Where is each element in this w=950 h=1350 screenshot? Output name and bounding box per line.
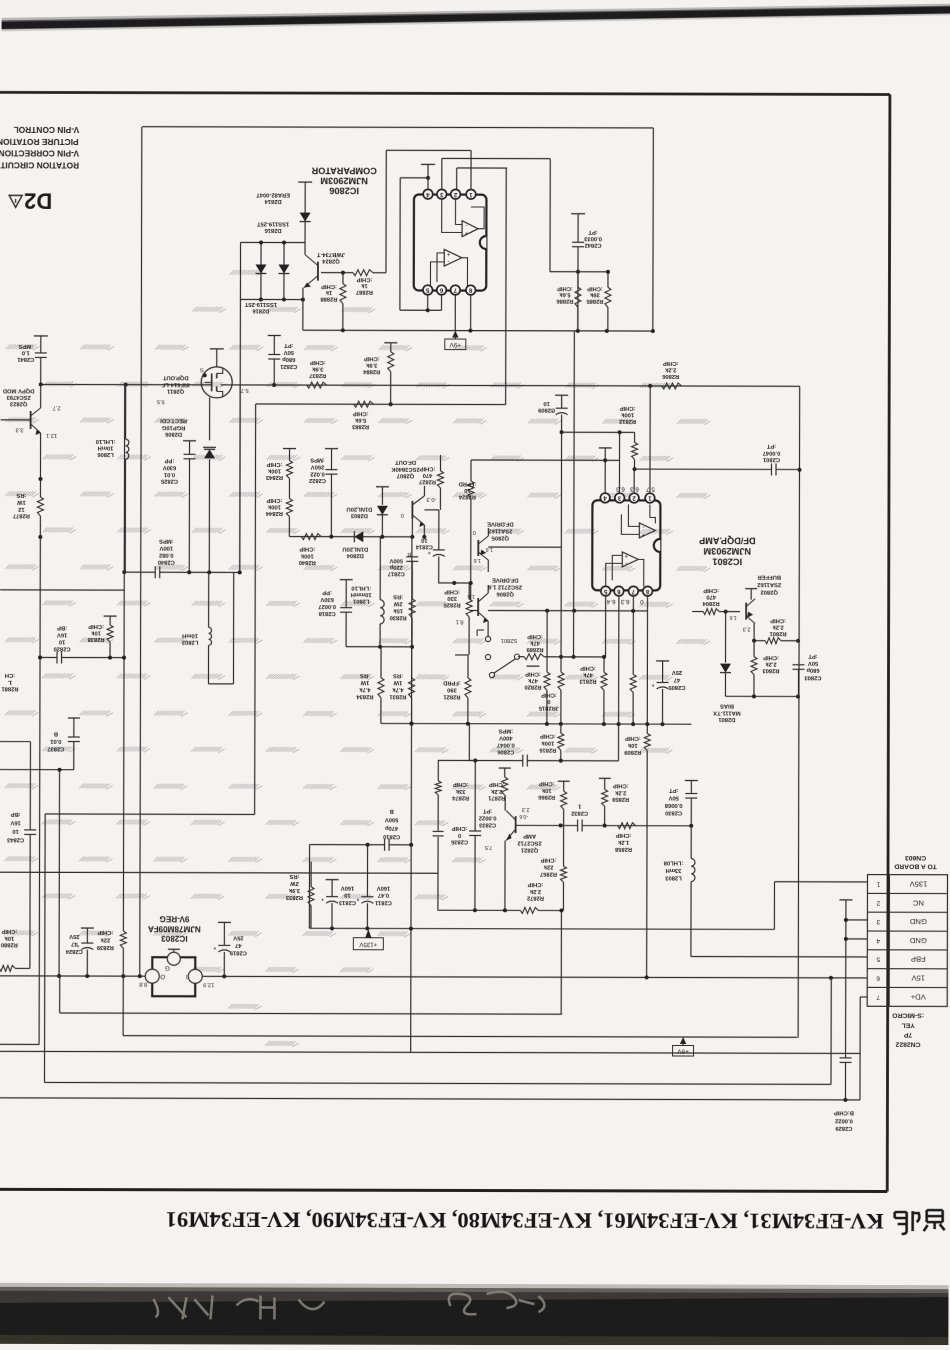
svg-text:R2888: R2888 bbox=[320, 296, 338, 302]
svg-text:0: 0 bbox=[473, 529, 476, 535]
svg-text:TO A BOARD: TO A BOARD bbox=[894, 863, 937, 870]
svg-text:R2881: R2881 bbox=[1, 685, 19, 691]
svg-text:8.8: 8.8 bbox=[139, 981, 147, 987]
svg-text:DF.DRIVE: DF.DRIVE bbox=[492, 577, 519, 583]
resistor R2834 4.7k 1W bbox=[380, 647, 382, 678]
IC2806 pins bottom row 5 6 7 8 bbox=[423, 285, 433, 295]
diode D2814 with label ERA82-004T bbox=[298, 181, 312, 183]
svg-text::CHIP: :CHIP bbox=[419, 465, 435, 471]
wire y=815 box top bbox=[45, 813, 254, 816]
resistor R2837 3.9k inline bbox=[307, 382, 327, 388]
wire y=432 bbox=[562, 431, 635, 433]
svg-text:C2822: C2822 bbox=[309, 477, 326, 483]
svg-text:5.6k: 5.6k bbox=[354, 417, 366, 423]
capacitor C2825 0.01 630V bbox=[183, 440, 196, 442]
svg-text:1.6: 1.6 bbox=[467, 593, 474, 599]
svg-text:*: * bbox=[321, 894, 324, 901]
resistor R2839 22k bbox=[122, 909, 124, 931]
svg-text:0.0022: 0.0022 bbox=[835, 1117, 853, 1123]
svg-text:10: 10 bbox=[421, 537, 427, 543]
svg-text:R2827: R2827 bbox=[419, 479, 436, 485]
capacitor C2837 0.01 bbox=[68, 717, 80, 719]
svg-text:10: 10 bbox=[464, 487, 470, 493]
resistor R2825 330 bbox=[468, 583, 470, 599]
svg-text:0: 0 bbox=[458, 832, 461, 838]
transistor Q2802 2SA1162 buffer bbox=[745, 603, 747, 620]
wire y=1045.5 bbox=[0, 1043, 39, 1045]
svg-text:R2871: R2871 bbox=[487, 795, 505, 801]
box corner x=30.6 rail with C2843 bbox=[0, 741, 30, 743]
wire Q2805 to rail y=547 bbox=[488, 546, 561, 548]
coil L2806 10mH bbox=[125, 385, 127, 439]
svg-text::CHIP: :CHIP bbox=[557, 285, 573, 291]
svg-text:2.2k: 2.2k bbox=[772, 624, 784, 630]
capacitor C2835 0 bbox=[433, 830, 444, 832]
svg-text:Q2811: Q2811 bbox=[166, 388, 184, 394]
svg-text:15V: 15V bbox=[911, 974, 925, 983]
svg-text:R2816: R2816 bbox=[538, 747, 556, 753]
svg-text:0.0022: 0.0022 bbox=[479, 815, 497, 821]
svg-text:I: I bbox=[186, 973, 188, 980]
coil L2803 33mH bbox=[690, 826, 692, 859]
svg-text:2SA1162: 2SA1162 bbox=[757, 581, 781, 587]
connector wires bbox=[774, 881, 867, 883]
svg-text:R2801: R2801 bbox=[769, 630, 787, 636]
svg-text::CHIP: :CHIP bbox=[1, 928, 17, 934]
svg-text:*: * bbox=[356, 894, 359, 901]
op-amp U1a inside IC2806 bbox=[462, 221, 478, 237]
svg-text:0: 0 bbox=[401, 512, 404, 518]
diode D2816a bbox=[260, 242, 262, 299]
wire pin2 riser from y=168 bbox=[456, 168, 458, 189]
svg-text::PT: :PT bbox=[808, 653, 818, 659]
svg-text:3: 3 bbox=[617, 494, 621, 501]
svg-text::CH: :CH bbox=[5, 672, 15, 678]
wire rail x=832 pin6 bbox=[830, 978, 832, 1084]
svg-text:C2824: C2824 bbox=[65, 948, 83, 954]
svg-text:6: 6 bbox=[439, 287, 443, 294]
svg-text::CHIP: :CHIP bbox=[356, 276, 372, 282]
svg-text:D2804: D2804 bbox=[346, 552, 364, 558]
resistor R2816 100k bbox=[560, 724, 562, 733]
svg-text:1: 1 bbox=[648, 495, 652, 502]
svg-text:100k: 100k bbox=[267, 504, 281, 510]
svg-text:7: 7 bbox=[453, 287, 457, 294]
svg-text::CHIP: :CHIP bbox=[525, 671, 541, 677]
svg-text:RGP10G: RGP10G bbox=[161, 424, 185, 430]
svg-text:47: 47 bbox=[674, 676, 680, 682]
wire pin3 riser x=619 bbox=[618, 432, 620, 493]
svg-text:C2837: C2837 bbox=[47, 745, 64, 751]
capacitor C2824 47 25V electro bbox=[81, 927, 94, 929]
svg-text:C2835: C2835 bbox=[450, 839, 468, 845]
svg-text:DQP.OUT: DQP.OUT bbox=[162, 374, 188, 380]
switch S2801 bbox=[477, 629, 484, 631]
svg-text:V-PIN CONTROL: V-PIN CONTROL bbox=[14, 125, 80, 135]
svg-text:+135V: +135V bbox=[358, 941, 377, 948]
svg-text:2W: 2W bbox=[290, 880, 299, 886]
svg-text:6.3: 6.3 bbox=[616, 485, 625, 492]
svg-text:DF.OUT: DF.OUT bbox=[395, 459, 416, 465]
resistor R2801 2.2k inline bbox=[765, 638, 781, 644]
svg-text::CHIP: :CHIP bbox=[703, 587, 719, 593]
svg-text:L2806: L2806 bbox=[97, 451, 114, 457]
svg-text:0.082: 0.082 bbox=[159, 552, 174, 558]
capacitor C2805 47 25V bbox=[656, 660, 669, 662]
svg-text:D2814: D2814 bbox=[264, 198, 282, 204]
wire y=591 bbox=[0, 589, 124, 591]
svg-text::CHIP: :CHIP bbox=[266, 497, 282, 503]
svg-text:CN2822: CN2822 bbox=[895, 1041, 920, 1048]
wire rail x=251 inner bbox=[232, 572, 234, 683]
capacitor C2801 0.0047 series bbox=[770, 463, 772, 475]
svg-text:0: 0 bbox=[639, 598, 643, 605]
svg-text:0.0047: 0.0047 bbox=[763, 450, 781, 456]
svg-text::CHIP: :CHIP bbox=[266, 461, 282, 467]
svg-text:5.5: 5.5 bbox=[157, 398, 165, 404]
svg-text:CN603: CN603 bbox=[905, 854, 926, 861]
wire pin2 riser bbox=[633, 469, 635, 493]
diode D2816b bbox=[283, 243, 285, 300]
svg-text:C2841: C2841 bbox=[16, 356, 34, 362]
svg-text:R2880: R2880 bbox=[1, 941, 18, 947]
svg-text:100k: 100k bbox=[541, 740, 555, 746]
diode D2803 D1NL20U vertical bbox=[376, 486, 389, 488]
svg-text:R2824: R2824 bbox=[458, 494, 476, 500]
svg-text:2SC2712 1.6: 2SC2712 1.6 bbox=[488, 584, 523, 590]
resistor R2843 100k bbox=[283, 448, 296, 450]
svg-text:7P: 7P bbox=[903, 1031, 912, 1038]
wire Q2824 base to R2887 bbox=[321, 272, 353, 274]
svg-text:D2806: D2806 bbox=[164, 431, 182, 437]
flag +9V on rail bbox=[452, 331, 458, 338]
svg-text:R2830: R2830 bbox=[390, 614, 407, 620]
svg-text::CHIP: :CHIP bbox=[527, 633, 543, 639]
svg-text::CHIP: :CHIP bbox=[540, 733, 556, 739]
svg-text:B: B bbox=[390, 808, 394, 814]
resistor R2809 10k bbox=[646, 724, 648, 733]
wire y=695.7 bbox=[725, 695, 798, 697]
resistor R2884 3.9k bbox=[384, 342, 397, 344]
svg-text:*: * bbox=[428, 547, 431, 554]
svg-text:Q2802: Q2802 bbox=[760, 589, 777, 595]
svg-text:-: - bbox=[447, 258, 449, 264]
svg-text::LHL10: :LHL10 bbox=[96, 438, 116, 444]
svg-text:C2801: C2801 bbox=[762, 456, 780, 462]
svg-text:1k: 1k bbox=[325, 289, 332, 295]
capacitor C2811 0.47 160V electro bbox=[366, 845, 368, 897]
resistor R2840 100k inline bbox=[301, 534, 321, 540]
svg-text:7: 7 bbox=[876, 993, 880, 1000]
resistor R2821 390 FPRD bbox=[467, 655, 469, 678]
svg-text:1W: 1W bbox=[17, 499, 26, 505]
svg-text:5.7: 5.7 bbox=[646, 485, 655, 492]
svg-text:IC2801: IC2801 bbox=[712, 556, 742, 566]
resistor R2871 2.2k bbox=[499, 767, 511, 769]
svg-text:0.0068: 0.0068 bbox=[664, 802, 683, 808]
wire rail x=846.5 gnd chain bbox=[839, 899, 852, 901]
wire rail x=59.8 bbox=[58, 770, 61, 976]
wire box1 top bbox=[142, 127, 653, 128]
capacitor C2813 10 160V electro bbox=[326, 879, 339, 881]
svg-text:0.022: 0.022 bbox=[310, 470, 325, 476]
svg-text:R2831: R2831 bbox=[389, 693, 407, 699]
svg-text:0.0047: 0.0047 bbox=[497, 742, 515, 748]
wire y=468.7 to C2801 bbox=[634, 468, 771, 470]
capacitor C2842 0.0033 bbox=[571, 213, 585, 215]
svg-text:2.7: 2.7 bbox=[53, 404, 61, 410]
svg-text:-: - bbox=[466, 222, 468, 228]
wire rail x=562 down bbox=[560, 911, 562, 1014]
wire rail x=561 from C2809 down bbox=[560, 432, 563, 657]
svg-text:R2843: R2843 bbox=[265, 474, 283, 480]
svg-text:2SA1162: 2SA1162 bbox=[488, 528, 512, 534]
resistor R2888 1k bbox=[342, 273, 344, 284]
wire IC2801 pin1 rail bbox=[649, 386, 651, 493]
svg-text:NC: NC bbox=[912, 898, 924, 907]
svg-text:C2806: C2806 bbox=[496, 749, 514, 755]
svg-text:12.9: 12.9 bbox=[203, 981, 214, 987]
svg-text:3.9k: 3.9k bbox=[288, 887, 300, 893]
transistor Q2811 IRF614-LF MOSFET bbox=[210, 348, 224, 350]
svg-text:R2825: R2825 bbox=[443, 602, 461, 608]
svg-text:1.6: 1.6 bbox=[729, 614, 736, 620]
svg-text:400V: 400V bbox=[499, 735, 513, 741]
capacitor C2832 1 series bbox=[582, 825, 691, 827]
svg-text:D2: D2 bbox=[24, 188, 52, 213]
wire y=460 bbox=[471, 459, 619, 461]
svg-text::CHIP: :CHIP bbox=[616, 832, 632, 838]
svg-text:10: 10 bbox=[344, 892, 350, 898]
svg-text:R2885: R2885 bbox=[586, 298, 604, 304]
svg-text:-0.6: -0.6 bbox=[519, 813, 528, 819]
svg-text:C2813: C2813 bbox=[338, 899, 356, 905]
svg-text:R2833: R2833 bbox=[285, 894, 303, 900]
svg-text:R2859: R2859 bbox=[611, 796, 629, 802]
svg-text::CHIP: :CHIP bbox=[587, 285, 603, 291]
svg-text:100k: 100k bbox=[300, 552, 314, 558]
title leading CJK-like glyphs bbox=[895, 1210, 945, 1234]
svg-text:6.4: 6.4 bbox=[606, 598, 615, 605]
svg-text:Q2806: Q2806 bbox=[496, 591, 514, 597]
svg-text::CHIP: :CHIP bbox=[88, 623, 104, 629]
svg-text:5.6k: 5.6k bbox=[559, 291, 571, 297]
svg-text:25V: 25V bbox=[233, 934, 243, 940]
svg-text:C2805: C2805 bbox=[668, 684, 686, 690]
op-amp U2a inside IC2801 bbox=[639, 523, 655, 538]
svg-text:10mH: 10mH bbox=[98, 444, 114, 450]
diode D2806 RGP10G bbox=[203, 446, 216, 448]
svg-text:R2813: R2813 bbox=[579, 678, 597, 684]
resistor R2886 5.6k bbox=[577, 272, 579, 287]
resistor R2804 470 inline bbox=[703, 609, 719, 615]
wire pin4 feed bbox=[400, 177, 428, 179]
svg-text:*: * bbox=[651, 680, 654, 687]
svg-text:4: 4 bbox=[426, 191, 430, 198]
wire pin5 pin6 risers to y=310.4 bbox=[427, 295, 429, 311]
transistor Q2807 2SC3840K bbox=[411, 501, 413, 519]
svg-text:L2802: L2802 bbox=[182, 639, 198, 645]
svg-text:D1NL20U: D1NL20U bbox=[347, 505, 373, 511]
svg-text:L2801: L2801 bbox=[352, 597, 369, 603]
svg-text::FPRD: :FPRD bbox=[443, 679, 461, 685]
svg-text:50V: 50V bbox=[283, 349, 293, 355]
svg-text:C2833: C2833 bbox=[478, 822, 496, 828]
svg-text:Q2807: Q2807 bbox=[397, 472, 414, 478]
IC2806 pin4 open terminal bar bbox=[421, 163, 435, 165]
terminal bar above y=460 bbox=[599, 447, 612, 449]
resistor R2889 47k inline bbox=[524, 654, 544, 660]
svg-text:+: + bbox=[446, 250, 450, 256]
svg-text::S-MICRO: :S-MICRO bbox=[892, 1012, 924, 1019]
svg-text:IC2803: IC2803 bbox=[161, 934, 188, 943]
wire pin7 pin8 risers bbox=[454, 295, 456, 331]
bottom scanner bar bbox=[0, 1287, 948, 1346]
svg-text:6.3: 6.3 bbox=[630, 485, 639, 492]
svg-text:BUFFER: BUFFER bbox=[757, 574, 781, 580]
svg-text:3.9k: 3.9k bbox=[311, 366, 323, 372]
wire y=1052.5 long bbox=[0, 1051, 860, 1053]
svg-text:8.1: 8.1 bbox=[456, 618, 464, 624]
svg-text:R2821: R2821 bbox=[443, 693, 461, 699]
svg-text:L2803: L2803 bbox=[664, 875, 681, 881]
svg-text:8: 8 bbox=[468, 287, 472, 294]
svg-text:C2842: C2842 bbox=[584, 242, 601, 248]
svg-text:-: - bbox=[642, 523, 644, 529]
svg-text:*: * bbox=[213, 943, 216, 950]
svg-text:9V-REG: 9V-REG bbox=[159, 914, 189, 923]
svg-text:B: B bbox=[54, 730, 58, 736]
wire y=770.7 bbox=[0, 769, 74, 771]
wire D2816 bottom bbox=[240, 298, 302, 300]
svg-text:4: 4 bbox=[603, 494, 607, 501]
gray hatch screening marks bbox=[230, 270, 264, 276]
wire box1 right edge bbox=[652, 128, 654, 331]
svg-text:0: 0 bbox=[547, 698, 550, 704]
svg-text:470p: 470p bbox=[385, 825, 399, 831]
wire pin3 riser bbox=[441, 158, 443, 189]
svg-text:S2801: S2801 bbox=[501, 637, 518, 643]
svg-text:2SC3840K: 2SC3840K bbox=[390, 466, 419, 472]
wire pin8 riser down bbox=[646, 596, 648, 724]
svg-text:100V: 100V bbox=[159, 545, 173, 551]
op-amp U1b inside IC2806 bbox=[444, 249, 462, 266]
svg-text:R2806: R2806 bbox=[661, 373, 679, 379]
svg-text:ERA82-004T: ERA82-004T bbox=[256, 192, 290, 198]
svg-text::CHIP: :CHIP bbox=[453, 781, 469, 787]
svg-text:C2843: C2843 bbox=[6, 837, 24, 843]
svg-text:R2809: R2809 bbox=[623, 749, 641, 755]
resistor R2827 470 bbox=[439, 455, 441, 471]
wire y=168 bbox=[457, 167, 507, 169]
resistor R2844 100k bbox=[288, 479, 290, 499]
capacitor C2819 47 25V electro bbox=[218, 921, 231, 923]
svg-text:22k: 22k bbox=[543, 864, 553, 870]
svg-text:50V: 50V bbox=[808, 660, 818, 666]
resistor R2887 1k bbox=[353, 270, 373, 276]
svg-text::CHIP: :CHIP bbox=[613, 782, 629, 788]
flag +135V bbox=[365, 929, 371, 937]
svg-text:160V: 160V bbox=[377, 885, 391, 891]
wire MOSFET drain down bbox=[209, 397, 211, 440]
svg-text:R2887: R2887 bbox=[356, 289, 373, 295]
svg-text:2.3: 2.3 bbox=[522, 806, 530, 812]
svg-text:6: 6 bbox=[876, 975, 880, 982]
capacitor C2843 10 16V bbox=[24, 829, 36, 831]
svg-text:C2811: C2811 bbox=[374, 899, 392, 905]
svg-text:10: 10 bbox=[543, 400, 549, 406]
wire y=825.3 bbox=[516, 824, 578, 826]
svg-text:5: 5 bbox=[876, 956, 880, 963]
svg-text:2.2k: 2.2k bbox=[765, 661, 777, 667]
resistor R2859 2.2k bbox=[599, 777, 611, 779]
svg-text:C2819: C2819 bbox=[229, 950, 247, 956]
svg-text:R2837: R2837 bbox=[309, 372, 326, 378]
svg-text:5: 5 bbox=[603, 588, 607, 595]
svg-text:39k: 39k bbox=[589, 291, 599, 297]
svg-text:-: - bbox=[625, 560, 627, 566]
svg-text:2.3: 2.3 bbox=[743, 626, 751, 632]
svg-text:47k: 47k bbox=[529, 640, 539, 646]
IC2801 pins top row 4 3 2 1 bbox=[600, 493, 610, 503]
svg-text:AMP: AMP bbox=[523, 833, 536, 839]
svg-text:1: 1 bbox=[876, 880, 880, 887]
svg-text:C2818: C2818 bbox=[318, 610, 336, 616]
svg-text:R2877: R2877 bbox=[13, 512, 30, 518]
svg-text:0.0033: 0.0033 bbox=[583, 235, 602, 241]
svg-text::MPS: :MPS bbox=[18, 343, 33, 349]
svg-text:10k: 10k bbox=[627, 742, 637, 748]
wire y=271.5 link bbox=[550, 271, 608, 273]
svg-text::CHIP: :CHIP bbox=[541, 692, 557, 698]
svg-text:PICTURE ROTATION: PICTURE ROTATION bbox=[0, 137, 79, 147]
svg-text:47k: 47k bbox=[527, 677, 537, 683]
resistor R2874 33k on box edge bbox=[435, 781, 441, 795]
svg-text:5.7: 5.7 bbox=[241, 387, 249, 393]
wire y=1036.5 bbox=[123, 1036, 797, 1038]
svg-text::CHIP: :CHIP bbox=[452, 825, 468, 831]
svg-text::CHIP: :CHIP bbox=[541, 857, 557, 863]
wire y=928.7 (+135V rail) bbox=[309, 928, 774, 929]
wire y=845 with C2810 bbox=[368, 844, 385, 846]
svg-text:10k: 10k bbox=[541, 787, 551, 793]
svg-text::CHIP: :CHIP bbox=[539, 780, 555, 786]
svg-text:IC2806: IC2806 bbox=[329, 186, 359, 196]
svg-text:0.0027: 0.0027 bbox=[318, 603, 336, 609]
wire rail x=573 bbox=[573, 331, 576, 657]
svg-text:O: O bbox=[160, 973, 165, 980]
svg-text::CHIP: :CHIP bbox=[763, 654, 779, 660]
svg-text::LHL10: :LHL10 bbox=[351, 585, 371, 591]
svg-text:16V: 16V bbox=[57, 631, 67, 637]
svg-text:DF.DRIVE: DF.DRIVE bbox=[487, 521, 514, 527]
capacitor C2816 electro bbox=[433, 549, 445, 551]
svg-text::PT: :PT bbox=[483, 808, 493, 814]
svg-text:C2840: C2840 bbox=[158, 559, 175, 565]
svg-text:2.2k: 2.2k bbox=[614, 789, 626, 795]
wire rail x=505 to box2 bbox=[505, 168, 508, 404]
svg-text:1W: 1W bbox=[393, 679, 402, 685]
wire rail x=124 bbox=[123, 385, 124, 909]
svg-text:1W: 1W bbox=[360, 679, 369, 685]
svg-text:12.1: 12.1 bbox=[46, 432, 57, 438]
svg-text::PP: :PP bbox=[322, 589, 332, 595]
svg-text:R2867: R2867 bbox=[540, 871, 557, 877]
jumper JR2815 0 (zigzag) bbox=[560, 657, 562, 672]
svg-text:GND: GND bbox=[909, 917, 926, 926]
svg-text:C2821: C2821 bbox=[279, 363, 297, 369]
svg-text::BP: :BP bbox=[57, 624, 67, 630]
